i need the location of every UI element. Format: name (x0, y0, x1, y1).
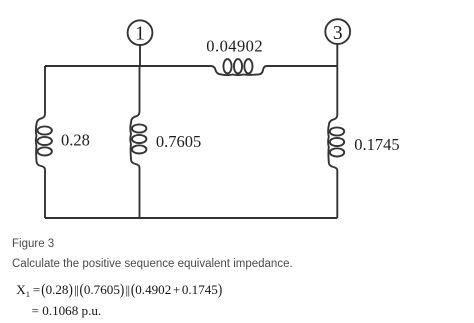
wire node 1 stub (139, 45, 141, 66)
svg-text:1: 1 (135, 23, 145, 44)
wire top bus right (267, 65, 338, 67)
wire bottom bus (45, 217, 337, 219)
node 3 (325, 19, 350, 44)
node 1 (128, 20, 153, 45)
svg-text:3: 3 (333, 23, 343, 44)
svg-text:0.1745: 0.1745 (354, 135, 399, 154)
wire middle branch bottom (139, 168, 141, 219)
inductor right 0.1745 (328, 115, 344, 171)
wire right branch top (336, 66, 338, 115)
caption Figure 3 (12, 239, 54, 251)
equation line 2 (32, 304, 102, 317)
wire left branch bottom (44, 170, 46, 219)
inductor left 0.28 (36, 114, 52, 170)
svg-text:0.04902: 0.04902 (206, 36, 263, 55)
wire right branch bottom (336, 171, 338, 219)
inductor L13 (series 0.04902) (211, 59, 267, 75)
svg-text:0.28: 0.28 (61, 130, 90, 149)
wire node 3 stub (336, 44, 338, 66)
prompt sentence (12, 259, 293, 271)
svg-text:0.7605: 0.7605 (156, 132, 201, 151)
wire left branch top (44, 66, 46, 114)
wire middle branch top (139, 66, 141, 112)
wire top bus left (45, 65, 211, 67)
equation line 1 (16, 283, 222, 296)
inductor middle 0.7605 (130, 112, 146, 168)
